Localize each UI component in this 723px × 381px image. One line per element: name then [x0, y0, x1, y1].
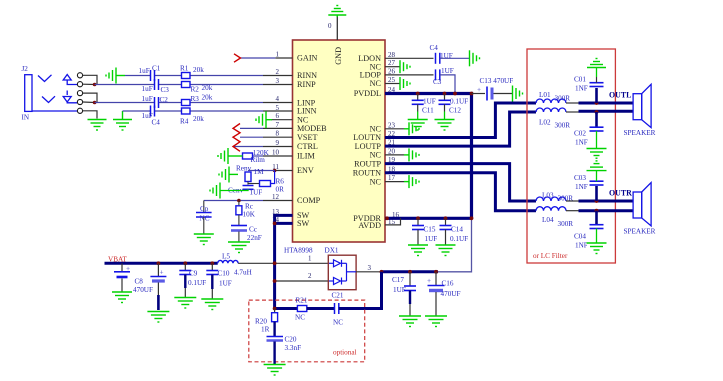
inductor L5	[218, 260, 238, 263]
connector J2 (input jack)	[25, 75, 78, 112]
svg-text:1NF: 1NF	[575, 183, 588, 191]
ground top (inverted)	[328, 6, 346, 18]
svg-text:ROUTP: ROUTP	[354, 159, 381, 168]
svg-text:+: +	[477, 86, 481, 94]
capacitor C15	[412, 218, 424, 245]
wire SW pin14	[275, 222, 293, 225]
svg-text:1NF: 1NF	[575, 85, 588, 93]
resistor Rilm	[243, 153, 253, 159]
svg-text:300R: 300R	[555, 95, 571, 103]
svg-text:Renv: Renv	[236, 165, 252, 173]
svg-text:1UF: 1UF	[250, 189, 263, 197]
svg-text:NC: NC	[333, 319, 343, 327]
ground NC pin25 (sideways)	[400, 77, 410, 90]
pin 1 GAIN wire	[241, 57, 276, 59]
svg-text:22nF: 22nF	[247, 234, 262, 242]
wire RINP line	[95, 84, 263, 86]
inductor L04	[536, 207, 566, 211]
svg-text:1NF: 1NF	[575, 242, 588, 250]
capacitor C10	[206, 263, 218, 299]
resistor Rc	[238, 201, 240, 206]
wire VBAT power rail	[105, 262, 218, 265]
inductor L02	[536, 108, 566, 112]
svg-text:1UF: 1UF	[425, 235, 438, 243]
capacitor C8 electrolytic	[150, 263, 166, 310]
svg-text:0: 0	[328, 22, 332, 30]
svg-text:Cp: Cp	[200, 205, 209, 213]
ground C15	[408, 245, 428, 256]
svg-text:1UF: 1UF	[423, 97, 436, 105]
svg-text:20k: 20k	[193, 66, 204, 74]
ground Cenv (sideways)	[210, 183, 220, 199]
svg-text:GND: GND	[334, 47, 343, 65]
svg-text:AVDD: AVDD	[358, 221, 381, 230]
svg-text:9: 9	[276, 139, 280, 147]
wire C13 to ground	[494, 93, 513, 95]
svg-text:C03: C03	[574, 174, 586, 182]
svg-text:L02: L02	[539, 119, 551, 127]
svg-text:R1: R1	[180, 65, 189, 73]
ground C4 (sideways)	[470, 50, 480, 66]
resistor R1	[182, 73, 191, 79]
svg-text:NC: NC	[370, 79, 382, 88]
ground C10	[201, 299, 223, 310]
ground NC pin6 (sideways)	[256, 111, 272, 128]
svg-text:R21: R21	[296, 297, 308, 305]
IC right pin names	[353, 54, 382, 230]
svg-text:1M: 1M	[254, 168, 265, 176]
resistor R20	[274, 309, 276, 313]
inductor L03	[536, 197, 566, 201]
red zigzag MODEB/VSET/CTRL	[233, 124, 240, 152]
ground Cp	[194, 234, 214, 245]
wire LINP line	[95, 102, 263, 104]
svg-text:C14: C14	[451, 226, 463, 234]
diode D1	[329, 260, 347, 267]
capacitor C16 electrolytic	[427, 272, 445, 316]
wire ENV to Renv	[248, 170, 275, 172]
svg-text:Rilm: Rilm	[251, 156, 266, 164]
svg-text:L04: L04	[542, 216, 554, 224]
wire jack contact2	[83, 83, 95, 85]
svg-text:1: 1	[308, 255, 312, 263]
wire ILIM	[253, 155, 264, 157]
svg-text:C04: C04	[574, 233, 586, 241]
wire LINN line	[123, 110, 264, 112]
wire L01 to OUTL	[566, 102, 579, 104]
wire R6 to ENV node	[271, 171, 275, 184]
capacitor C4 (LDON)	[436, 53, 440, 64]
svg-text:RINP: RINP	[297, 80, 316, 89]
svg-text:2: 2	[308, 272, 312, 280]
svg-text:VSET: VSET	[297, 133, 317, 142]
svg-text:OUTL: OUTL	[609, 91, 631, 100]
wire SW bus to R21	[275, 307, 298, 310]
svg-text:20k: 20k	[202, 84, 213, 92]
svg-text:3.3nF: 3.3nF	[285, 344, 302, 352]
ground C11	[408, 120, 428, 131]
node rail C14	[444, 216, 448, 220]
ground line4 left	[113, 111, 132, 130]
svg-text:+: +	[126, 265, 130, 273]
capacitor C3	[155, 79, 159, 90]
svg-text:PVDDL: PVDDL	[354, 89, 381, 98]
svg-text:8: 8	[276, 130, 280, 138]
node rail C15	[416, 216, 420, 220]
svg-text:1NF: 1NF	[575, 139, 588, 147]
speaker left	[633, 84, 651, 127]
jack contact circles	[77, 73, 82, 114]
node OUTL lower	[595, 110, 599, 114]
wire ROUTN pin18	[385, 173, 536, 211]
ground jack sleeve	[88, 120, 107, 131]
ground C8	[147, 312, 169, 323]
resistor R3	[182, 100, 191, 106]
svg-text:C01: C01	[574, 76, 586, 84]
svg-text:SW: SW	[297, 219, 310, 228]
svg-text:C15: C15	[424, 226, 436, 234]
svg-text:17: 17	[388, 174, 396, 182]
svg-text:26: 26	[388, 67, 396, 75]
svg-text:23: 23	[388, 121, 396, 129]
svg-text:LINN: LINN	[297, 107, 317, 116]
node OUTL upper	[595, 101, 599, 105]
svg-text:L01: L01	[539, 91, 551, 99]
svg-text:R3: R3	[191, 95, 200, 103]
svg-text:C8: C8	[135, 278, 144, 286]
wire C3 to PVDDL rail	[440, 75, 455, 94]
svg-text:IN: IN	[22, 114, 30, 122]
ground C04	[587, 243, 607, 254]
wire jack tip to RINP node	[83, 75, 97, 84]
wire L02 to OUTL low	[566, 111, 579, 113]
LC filter box	[527, 49, 615, 263]
wires MODEB VSET CTRL	[234, 128, 264, 146]
svg-text:C4: C4	[430, 44, 439, 52]
wire ROUTP pin19	[385, 164, 536, 201]
node rail C11	[416, 92, 420, 96]
svg-text:1UF: 1UF	[393, 286, 406, 294]
svg-text:HTA8998: HTA8998	[284, 247, 313, 255]
svg-text:C02: C02	[574, 130, 586, 138]
right pin number labels	[388, 51, 400, 226]
svg-text:C12: C12	[449, 106, 461, 114]
svg-text:1uF: 1uF	[142, 95, 153, 103]
svg-text:R4: R4	[180, 118, 189, 126]
svg-text:COMP: COMP	[297, 196, 321, 205]
battery VBAT cap	[114, 263, 130, 292]
wire Renv bottom node	[247, 182, 249, 185]
capacitor C20	[267, 337, 284, 341]
svg-text:SPEAKER: SPEAKER	[624, 227, 656, 235]
node L5/SW junction	[273, 261, 277, 265]
svg-text:C9: C9	[189, 270, 198, 278]
svg-text:10K: 10K	[243, 211, 256, 219]
wire PVDDR rail	[385, 217, 472, 220]
capacitor C21	[335, 303, 339, 314]
IC left pin names	[297, 54, 327, 228]
svg-text:1uF: 1uF	[139, 67, 150, 75]
svg-text:NC: NC	[370, 177, 382, 186]
capacitor C03	[590, 171, 604, 201]
capacitor C12	[439, 94, 451, 120]
wire pin3 power rail	[382, 270, 439, 273]
wire R20 to C20	[273, 322, 275, 337]
svg-text:4: 4	[276, 95, 280, 103]
node ENV junction	[273, 169, 277, 173]
wire DX1 pin3 out	[347, 271, 357, 273]
svg-text:C20: C20	[285, 336, 297, 344]
ground Rilm (sideways)	[218, 148, 243, 164]
capacitor C01	[590, 67, 604, 103]
capacitor C9	[179, 263, 191, 297]
wire LOUTN pin22	[385, 103, 536, 138]
ground C9	[174, 298, 196, 309]
resistor R6	[260, 181, 271, 187]
svg-text:470UF: 470UF	[133, 286, 153, 294]
svg-text:6: 6	[276, 112, 280, 120]
svg-text:NC: NC	[297, 115, 309, 124]
svg-text:RINN: RINN	[297, 71, 317, 80]
svg-text:0.1UF: 0.1UF	[450, 97, 468, 105]
svg-text:OUTR: OUTR	[609, 189, 632, 198]
ground C20	[264, 365, 286, 376]
capacitor C17	[404, 272, 416, 316]
svg-text:L5: L5	[222, 253, 230, 261]
svg-text:1uF: 1uF	[142, 85, 153, 93]
svg-text:C2: C2	[160, 96, 169, 104]
svg-text:27: 27	[388, 59, 396, 67]
svg-text:+: +	[160, 269, 164, 277]
svg-text:20k: 20k	[193, 115, 204, 123]
node rail start	[385, 216, 389, 220]
ground ENV upper (sideways)	[219, 167, 238, 183]
svg-text:LOUTP: LOUTP	[355, 142, 382, 151]
capacitor C4	[151, 106, 155, 117]
node COMP junction	[237, 199, 241, 203]
capacitor C2	[155, 97, 159, 108]
ground C16	[425, 316, 447, 327]
svg-text:C4: C4	[152, 119, 161, 127]
diode D2	[329, 278, 347, 285]
svg-text:NC: NC	[370, 125, 382, 134]
svg-text:NC: NC	[200, 215, 210, 223]
node rail C17	[408, 270, 412, 274]
node LIN junction	[93, 101, 97, 105]
ground sideways at C1 input	[106, 68, 125, 84]
svg-text:3: 3	[368, 264, 372, 272]
node rail C9	[183, 261, 187, 265]
svg-text:300R: 300R	[555, 122, 571, 130]
wire LOUTP pin21	[385, 112, 536, 146]
svg-text:470UF: 470UF	[441, 290, 461, 298]
op-amp U1 HTA8998 IC body	[293, 40, 386, 242]
svg-text:L03: L03	[542, 192, 554, 200]
node pin3 junction	[380, 270, 384, 274]
svg-text:2: 2	[276, 68, 280, 76]
svg-text:ROUTN: ROUTN	[353, 169, 381, 178]
wire AVDD pin15 joins	[385, 218, 401, 225]
svg-text:C11: C11	[422, 106, 434, 114]
wire optional branch down	[342, 272, 382, 309]
svg-text:0.1UF: 0.1UF	[450, 235, 468, 243]
svg-text:1UF: 1UF	[441, 67, 454, 75]
wire Cp to ground	[203, 217, 205, 234]
svg-text:25: 25	[388, 76, 396, 84]
wire COMP	[204, 200, 263, 202]
wire RINN line	[125, 75, 263, 77]
svg-text:CTRL: CTRL	[297, 142, 318, 151]
node rail corner2	[470, 216, 474, 220]
svg-text:GAIN: GAIN	[297, 54, 318, 63]
svg-text:R20: R20	[255, 318, 267, 326]
ground VBAT	[112, 292, 132, 303]
svg-text:ILIM: ILIM	[297, 152, 315, 161]
capacitor Cp	[203, 201, 205, 213]
svg-text:1UF: 1UF	[219, 280, 232, 288]
wire jack sleeve to ground	[83, 111, 97, 119]
node OUTR upper	[595, 199, 599, 203]
wire Cc to ground	[238, 232, 240, 243]
left pin stubs (dark)	[263, 58, 293, 223]
wire Rc to Cc	[238, 215, 240, 226]
svg-text:ENV: ENV	[297, 166, 314, 175]
svg-text:R2: R2	[191, 86, 200, 94]
ground NC pin20 (sideways)	[404, 148, 419, 161]
node rail C16	[434, 270, 438, 274]
svg-text:300R: 300R	[558, 220, 574, 228]
ground C13 (sideways)	[513, 86, 523, 102]
resistor R4	[182, 108, 191, 114]
wire DX1 cathodes join	[346, 263, 348, 281]
inductor L01	[536, 99, 566, 103]
svg-text:C13 470UF: C13 470UF	[480, 77, 514, 85]
wire C20 to ground	[273, 342, 275, 365]
svg-text:SPEAKER: SPEAKER	[624, 129, 656, 137]
svg-text:10: 10	[272, 149, 280, 157]
speaker right	[633, 183, 651, 226]
svg-text:C10: C10	[218, 270, 230, 278]
svg-text:3: 3	[276, 77, 280, 85]
resistor Renv	[245, 172, 251, 182]
capacitor Cenv	[243, 186, 254, 190]
svg-text:C3: C3	[433, 78, 442, 86]
svg-text:4.7uH: 4.7uH	[234, 269, 252, 277]
svg-text:28: 28	[388, 51, 396, 59]
svg-text:20: 20	[388, 147, 396, 155]
svg-text:J2: J2	[22, 65, 29, 73]
svg-text:NC: NC	[295, 314, 305, 322]
capacitor Cc	[231, 226, 247, 231]
capacitor C04	[590, 211, 604, 243]
red connector chevron pin1	[234, 54, 241, 62]
svg-text:C21: C21	[332, 292, 344, 300]
capacitor C02	[590, 112, 604, 148]
svg-text:Rc: Rc	[245, 203, 253, 211]
node rail C10	[210, 261, 214, 265]
svg-text:1R: 1R	[261, 326, 270, 334]
wire L5 to DX1	[238, 262, 328, 264]
svg-text:20k: 20k	[202, 94, 213, 102]
left pin number labels	[272, 51, 280, 225]
svg-text:R6: R6	[276, 178, 285, 186]
pin GND top	[336, 16, 338, 40]
capacitor C11	[412, 94, 424, 120]
svg-text:C17: C17	[392, 276, 404, 284]
wire SW pins vertical bus	[275, 215, 293, 308]
wire R21 to C21	[307, 307, 335, 310]
svg-text:C3: C3	[161, 86, 170, 94]
resistor R2	[182, 82, 191, 88]
svg-text:C1: C1	[152, 65, 161, 73]
ground mid double	[587, 149, 607, 171]
wire L04 to OUTR low	[566, 210, 579, 212]
capacitor C14	[440, 218, 452, 245]
svg-text:12: 12	[272, 193, 280, 201]
node rail C3	[453, 92, 457, 96]
wire jack contact4	[83, 101, 95, 104]
capacitor C3 (LDOP)	[436, 69, 440, 80]
svg-text:7: 7	[276, 121, 280, 129]
wire jack ring to LINP node	[83, 93, 97, 102]
ground Cc	[228, 242, 250, 253]
svg-text:DX1: DX1	[325, 247, 339, 255]
capacitor C1	[151, 70, 155, 81]
node RIN junction	[93, 83, 97, 87]
node rail C8	[157, 261, 161, 265]
svg-text:NC: NC	[370, 151, 382, 160]
ground NC pin17 (sideways)	[404, 175, 419, 188]
node R20 junction	[273, 307, 277, 311]
wire C21 to pin3 drop	[339, 307, 342, 310]
wire C4 to ground	[440, 57, 470, 59]
wire pin3 rail to AVDD riser	[438, 218, 472, 271]
node SW14 junction	[273, 222, 277, 226]
diode block DX1	[328, 255, 356, 290]
svg-text:1: 1	[276, 51, 280, 59]
wire rail to C13	[472, 93, 486, 95]
ground C12	[435, 120, 455, 131]
svg-text:optional: optional	[333, 349, 357, 357]
svg-text:0R: 0R	[276, 186, 285, 194]
svg-text:+: +	[427, 277, 431, 285]
optional box (dashed)	[249, 300, 365, 362]
node OUTR lower	[595, 209, 599, 213]
wire L03 to OUTR	[566, 200, 579, 202]
svg-text:0.1UF: 0.1UF	[188, 279, 206, 287]
resistor R21	[297, 306, 306, 312]
ground C14	[436, 245, 456, 256]
ground C01 (inverted)	[587, 59, 606, 68]
ground C17	[399, 316, 421, 327]
node DX1 pin2 junction	[273, 279, 277, 283]
svg-text:MODEB: MODEB	[297, 124, 327, 133]
wire PVDDL rail	[385, 94, 472, 219]
right pin stubs (dark)	[385, 58, 434, 181]
svg-text:C16: C16	[442, 280, 454, 288]
svg-text:or LC Filter: or LC Filter	[533, 252, 568, 260]
node rail corner	[470, 92, 474, 96]
wire Cenv to ground	[220, 189, 248, 190]
wire SW bus to DX1 pin2	[275, 280, 328, 282]
ground NC pin23 (sideways)	[404, 122, 419, 135]
ground NC pin27 (sideways)	[400, 60, 410, 73]
capacitor C13 electrolytic	[487, 87, 492, 101]
node rail C12	[443, 92, 447, 96]
svg-text:Cc: Cc	[249, 226, 257, 234]
